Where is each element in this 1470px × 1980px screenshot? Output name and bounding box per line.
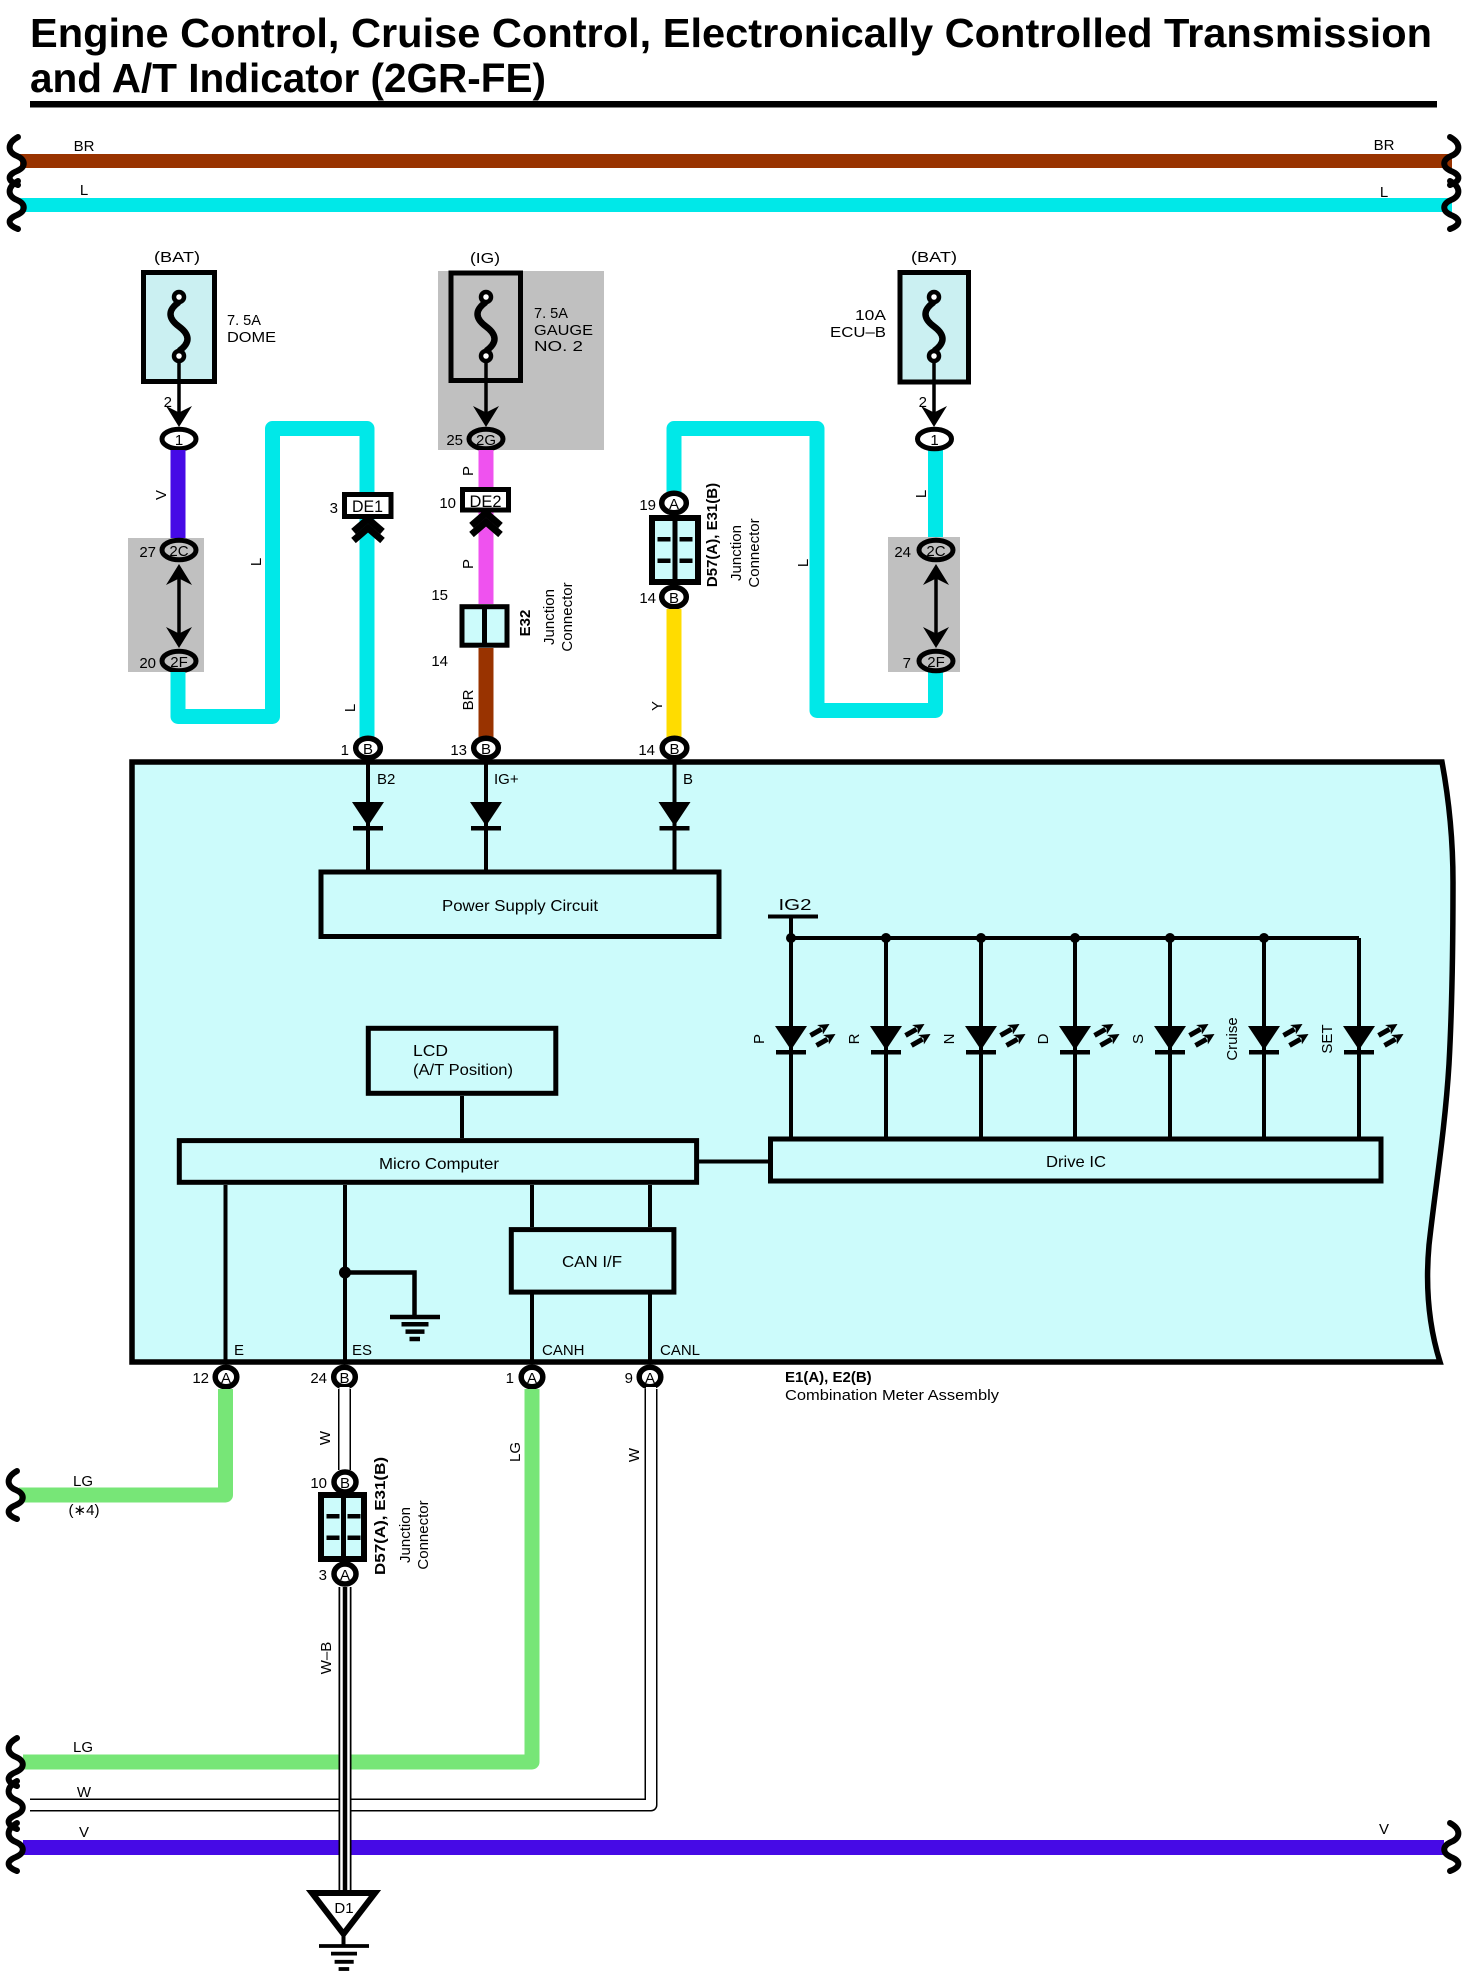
CAN I/F box	[511, 1230, 674, 1293]
svg-text:CANL: CANL	[660, 1342, 700, 1359]
pin 10 label (DE2)	[439, 495, 456, 512]
svg-text:DE1: DE1	[352, 497, 383, 516]
label N (rotated)	[941, 1034, 958, 1045]
svg-text:L: L	[248, 558, 265, 566]
fuse DOME value label	[227, 312, 276, 346]
label L (middle leg)	[248, 558, 265, 566]
svg-text:Connector: Connector	[746, 518, 763, 587]
svg-text:D57(A), E31(B): D57(A), E31(B)	[704, 483, 721, 587]
net B2 label	[377, 771, 395, 788]
net B label	[683, 771, 693, 788]
fuse DOME label (BAT)	[154, 249, 200, 266]
LED Cruise	[1248, 1024, 1309, 1055]
net ES label	[352, 1342, 372, 1359]
svg-text:B: B	[363, 741, 373, 758]
svg-text:20: 20	[139, 655, 156, 672]
svg-text:R: R	[846, 1033, 863, 1044]
pin 3 label (D57 bottom)	[319, 1567, 327, 1584]
svg-text:7. 5A: 7. 5A	[227, 312, 261, 329]
svg-text:24: 24	[310, 1370, 327, 1387]
title underline	[30, 101, 1437, 108]
svg-text:Power Supply Circuit: Power Supply Circuit	[442, 898, 599, 915]
svg-text:Junction: Junction	[397, 1507, 414, 1563]
junction dot 5	[1165, 933, 1175, 943]
svg-text:DOME: DOME	[227, 329, 276, 346]
wire IG+ to power supply	[484, 762, 488, 870]
wire L top bus	[20, 198, 1452, 212]
wire LED Cruise branch	[1262, 938, 1266, 1137]
label L (right loop left leg)	[795, 559, 812, 567]
svg-text:15: 15	[431, 587, 448, 604]
pin 3 label (DE1)	[330, 500, 338, 517]
wire LED SET branch	[1357, 938, 1361, 1137]
svg-text:LG: LG	[73, 1473, 93, 1490]
LCD box	[368, 1028, 556, 1093]
wire ES ground branch	[345, 1273, 415, 1318]
wire LED N branch	[979, 938, 983, 1137]
wire LED supply bus	[791, 936, 1359, 940]
svg-text:Micro Computer: Micro Computer	[379, 1156, 500, 1173]
label Y	[649, 701, 666, 711]
wire V bottom bus	[23, 1840, 1444, 1855]
wire BR (E32 to pin 13)	[479, 648, 494, 740]
label E32 (rotated)	[517, 610, 534, 637]
junction dot 6	[1259, 933, 1269, 943]
label LG bottom left	[73, 1739, 93, 1756]
micro computer box	[179, 1141, 696, 1183]
svg-text:3: 3	[319, 1567, 327, 1584]
LED N	[965, 1024, 1026, 1055]
wire Y (D57 to pin 14)	[667, 609, 682, 740]
svg-text:B: B	[669, 741, 679, 758]
svg-text:25: 25	[446, 432, 463, 449]
pin 24 label	[894, 544, 911, 561]
node oval 1 (ECU-B)	[918, 429, 952, 449]
wire W-B (D57 to ground D1)	[339, 1587, 352, 1892]
wire B to power supply	[673, 762, 677, 870]
svg-text:IG2: IG2	[779, 897, 812, 914]
fuse GAUGE label (IG)	[470, 250, 500, 267]
label W (pin 24 wire)	[317, 1430, 334, 1445]
label W (CANL vertical, rotated)	[626, 1447, 643, 1462]
svg-text:1: 1	[930, 432, 938, 449]
svg-text:BR: BR	[74, 138, 95, 155]
pin 14 label (E32)	[431, 653, 448, 670]
svg-text:12: 12	[192, 1370, 209, 1387]
pin 15 label (E32)	[431, 587, 448, 604]
svg-text:9: 9	[625, 1370, 633, 1387]
break symbol V right	[1444, 1823, 1458, 1871]
svg-text:ECU–B: ECU–B	[830, 324, 886, 341]
wire fuse DOME to connector	[166, 362, 192, 427]
fuse DOME box	[144, 273, 215, 382]
label Junction Connector top (rotated)	[728, 518, 763, 587]
label P upper	[460, 466, 477, 476]
svg-text:W: W	[317, 1430, 334, 1445]
net CANL label	[660, 1342, 700, 1359]
ground (internal ES)	[390, 1317, 440, 1339]
svg-text:7: 7	[903, 655, 911, 672]
svg-text:P: P	[460, 466, 477, 476]
pin 24 label	[310, 1370, 327, 1387]
pin 14 label (D57 top B)	[639, 590, 656, 607]
junction dot 1	[786, 933, 796, 943]
break symbol LG bottom	[9, 1738, 23, 1786]
svg-text:P: P	[460, 559, 477, 569]
node oval 2C left	[162, 540, 196, 560]
svg-text:2F: 2F	[170, 654, 188, 671]
svg-text:B: B	[339, 1370, 349, 1387]
connector DE1	[345, 495, 392, 517]
label L right	[1380, 184, 1388, 201]
wire D1 stub	[342, 1934, 346, 1945]
svg-text:A: A	[669, 496, 679, 513]
svg-text:LG: LG	[507, 1442, 524, 1462]
junction connector E32	[462, 607, 507, 646]
pin 7 label	[903, 655, 911, 672]
wire L (2F loop to DE1)	[178, 429, 367, 741]
wire V (DOME to 2C)	[171, 450, 186, 540]
LED R	[870, 1024, 931, 1055]
chevron DE1	[354, 519, 383, 541]
break symbol L left	[10, 181, 24, 229]
label V	[153, 490, 170, 500]
svg-text:E1(A), E2(B): E1(A), E2(B)	[785, 1369, 872, 1386]
wire fuse ECU-B to connector	[921, 362, 947, 427]
node B (D57 bottom)	[334, 1472, 356, 1492]
wire LED S branch	[1168, 938, 1172, 1137]
pin 10 label (D57 bottom)	[310, 1475, 327, 1492]
svg-text:14: 14	[431, 653, 448, 670]
net E label	[234, 1342, 244, 1359]
svg-text:and A/T Indicator (2GR-FE): and A/T Indicator (2GR-FE)	[30, 55, 546, 101]
wire CANL (CAN I/F to pin 9)	[648, 1294, 652, 1364]
label D57(A), E31(B) top (rotated)	[704, 483, 721, 587]
junction dot ES	[339, 1267, 351, 1279]
label S (rotated)	[1130, 1034, 1147, 1044]
wire LCD to micro computer	[460, 1096, 464, 1138]
svg-text:E32: E32	[517, 610, 534, 637]
diode D (B)	[659, 802, 691, 831]
label V bottom right	[1379, 1821, 1389, 1838]
svg-text:14: 14	[638, 742, 655, 759]
label P (rotated)	[751, 1034, 768, 1044]
node oval 2F right	[919, 651, 953, 671]
connector DE2	[463, 490, 509, 512]
label LG (CANH vertical, rotated)	[507, 1442, 524, 1462]
svg-text:A: A	[340, 1567, 350, 1584]
svg-text:B: B	[481, 741, 491, 758]
node oval 1 (DOME)	[162, 429, 196, 449]
fuse ECU-B value label	[830, 307, 886, 341]
junction dot 3	[976, 933, 986, 943]
label P lower	[460, 559, 477, 569]
svg-text:W–B: W–B	[318, 1642, 335, 1675]
label D57(A), E31(B) bottom (rotated)	[372, 1457, 389, 1575]
label BR left	[74, 138, 95, 155]
wire fuse GAUGE to 2G	[473, 362, 499, 427]
node oval 2C right	[919, 540, 953, 560]
svg-text:V: V	[79, 1824, 89, 1841]
label SET (rotated)	[1319, 1024, 1336, 1053]
pin 2 label (DOME)	[164, 394, 172, 411]
svg-text:Cruise: Cruise	[1224, 1017, 1241, 1060]
svg-text:2F: 2F	[927, 654, 945, 671]
pin 9 label (bottom)	[625, 1370, 633, 1387]
wire L (right loop)	[674, 429, 936, 711]
break symbol V left	[9, 1823, 23, 1871]
label BR right	[1374, 137, 1395, 154]
pin 14 label (meter B)	[638, 742, 655, 759]
svg-text:BR: BR	[460, 689, 477, 710]
junction connector D57(A) E31(B) top	[652, 518, 698, 582]
fuse GAUGE grey block	[438, 271, 604, 450]
LED SET	[1343, 1024, 1404, 1055]
title line 1	[30, 10, 1432, 56]
svg-text:NO. 2: NO. 2	[534, 338, 583, 355]
svg-text:LCD: LCD	[413, 1043, 448, 1060]
svg-text:27: 27	[139, 544, 156, 561]
svg-text:L: L	[80, 182, 88, 199]
svg-text:B2: B2	[377, 771, 395, 788]
svg-text:3: 3	[330, 500, 338, 517]
pin 1 label (bottom)	[506, 1370, 514, 1387]
svg-text:A: A	[527, 1370, 537, 1387]
node B (D57 top)	[662, 587, 687, 607]
combination meter assembly box E1(A) E2(B)	[132, 762, 1453, 1362]
svg-text:Connector: Connector	[415, 1500, 432, 1569]
pin 2 label (ECU-B)	[919, 394, 927, 411]
svg-text:BR: BR	[1374, 137, 1395, 154]
wire LED P branch	[789, 938, 793, 1137]
net CANH label	[542, 1342, 585, 1359]
label V bottom left	[79, 1824, 89, 1841]
node oval 2G	[469, 429, 503, 449]
fuse ECU-B box	[900, 273, 969, 383]
svg-text:(∗4): (∗4)	[69, 1502, 100, 1519]
power supply circuit box	[321, 872, 719, 937]
wire L (ECU-B to 2C right)	[928, 449, 943, 545]
svg-text:2C: 2C	[169, 543, 188, 560]
wire LG (CANH pin 1 to left)	[23, 1389, 532, 1762]
label W bottom left	[77, 1784, 92, 1801]
svg-text:7. 5A: 7. 5A	[534, 305, 568, 322]
pin 13 label (meter B)	[450, 742, 467, 759]
break symbol L right	[1444, 181, 1458, 229]
label Combination Meter Assembly	[785, 1387, 1000, 1404]
label E32 Junction Connector (rotated)	[541, 582, 576, 651]
svg-text:DE2: DE2	[470, 492, 502, 511]
svg-text:(BAT): (BAT)	[154, 249, 200, 266]
label E1(A), E2(B)	[785, 1369, 872, 1386]
node A pin9 (meter)	[639, 1367, 661, 1387]
svg-text:B: B	[340, 1475, 350, 1492]
node A (D57 bottom)	[334, 1564, 356, 1584]
wire W (CANL pin 9 to left)	[27, 1387, 651, 1805]
node IG2	[768, 897, 818, 938]
fuse GAUGE box	[451, 273, 521, 381]
connector block 2C/2F right (grey)	[888, 537, 960, 672]
label Cruise (rotated)	[1224, 1017, 1241, 1060]
svg-text:A: A	[645, 1370, 655, 1387]
node B pin14 (meter)	[662, 738, 687, 758]
wire LG (pin 12 to left)	[19, 1389, 226, 1495]
svg-text:1: 1	[341, 742, 349, 759]
svg-text:(BAT): (BAT)	[911, 249, 957, 266]
pin 1 label (meter B)	[341, 742, 349, 759]
title line 2	[30, 55, 546, 101]
svg-text:IG+: IG+	[494, 771, 519, 788]
node B pin13 (meter)	[474, 738, 499, 758]
svg-text:LG: LG	[73, 1739, 93, 1756]
LED P	[775, 1024, 836, 1055]
chevron DE2	[472, 513, 501, 535]
svg-text:S: S	[1130, 1034, 1147, 1044]
svg-text:L: L	[795, 559, 812, 567]
svg-text:L: L	[1380, 184, 1388, 201]
svg-text:P: P	[751, 1034, 768, 1044]
wire micro computer to CAN I/F (CANH side)	[530, 1185, 534, 1227]
pin 27 label	[139, 544, 156, 561]
node B pin24 (meter)	[334, 1367, 356, 1387]
wire ES (micro computer to pin 24)	[343, 1185, 347, 1364]
label W-B (rotated)	[318, 1642, 335, 1675]
break symbol W bottom	[9, 1781, 23, 1829]
wire micro computer to drive IC	[699, 1160, 768, 1164]
break symbol BR right	[1444, 137, 1458, 185]
svg-text:Junction: Junction	[541, 589, 558, 645]
svg-text:1: 1	[506, 1370, 514, 1387]
pin 12 label	[192, 1370, 209, 1387]
svg-text:19: 19	[639, 497, 656, 514]
wire B2 to power supply	[366, 762, 370, 870]
LED S	[1154, 1024, 1215, 1055]
junction arrow 2C-2F right	[923, 564, 949, 648]
wire micro computer to CAN I/F (CANL side)	[648, 1185, 652, 1227]
svg-text:A: A	[221, 1370, 231, 1387]
svg-text:CANH: CANH	[542, 1342, 585, 1359]
label LG (*4)	[69, 1473, 100, 1519]
node oval 2F left	[162, 651, 196, 671]
label Junction Connector bottom (rotated)	[397, 1500, 432, 1569]
svg-text:GAUGE: GAUGE	[534, 322, 593, 339]
svg-text:Y: Y	[649, 701, 666, 711]
svg-text:D: D	[1035, 1033, 1052, 1044]
pin 20 label	[139, 655, 156, 672]
svg-text:10: 10	[439, 495, 456, 512]
fuse GAUGE value label	[534, 305, 593, 355]
ground symbol D1	[319, 1946, 369, 1969]
svg-text:V: V	[153, 490, 170, 500]
net IG+ label	[494, 771, 519, 788]
svg-text:E: E	[234, 1342, 244, 1359]
svg-text:ES: ES	[352, 1342, 372, 1359]
svg-text:D1: D1	[334, 1900, 353, 1917]
svg-text:W: W	[77, 1784, 92, 1801]
label L left	[80, 182, 88, 199]
svg-text:B: B	[683, 771, 693, 788]
svg-text:10: 10	[310, 1475, 327, 1492]
svg-text:2C: 2C	[926, 543, 945, 560]
node A (D57 top)	[662, 493, 687, 513]
node A pin12 (meter)	[215, 1367, 237, 1387]
wire BR top bus	[20, 154, 1452, 168]
wire CANH (CAN I/F to pin 1)	[530, 1294, 534, 1364]
diode D (B2)	[352, 802, 384, 831]
label R (rotated)	[846, 1033, 863, 1044]
pin 25 label	[446, 432, 463, 449]
wire E (micro computer to pin 12)	[224, 1185, 228, 1364]
svg-text:Connector: Connector	[559, 582, 576, 651]
svg-text:14: 14	[639, 590, 656, 607]
svg-text:W: W	[626, 1447, 643, 1462]
junction dot 4	[1070, 933, 1080, 943]
svg-text:CAN I/F: CAN I/F	[562, 1254, 622, 1271]
node A pin1 (meter)	[521, 1367, 543, 1387]
fuse ECU-B label (BAT)	[911, 249, 957, 266]
break symbol LG (*4)	[9, 1471, 23, 1519]
svg-text:13: 13	[450, 742, 467, 759]
svg-text:B: B	[669, 590, 679, 607]
svg-text:10A: 10A	[855, 307, 886, 324]
svg-text:Combination Meter Assembly: Combination Meter Assembly	[785, 1387, 1000, 1404]
node B pin1 (meter)	[356, 738, 381, 758]
svg-text:Drive IC: Drive IC	[1046, 1154, 1106, 1171]
svg-text:(A/T Position): (A/T Position)	[413, 1062, 513, 1079]
svg-text:2G: 2G	[476, 432, 496, 449]
diode D (IG+)	[470, 802, 502, 831]
svg-text:SET: SET	[1319, 1024, 1336, 1053]
junction dot 2	[881, 933, 891, 943]
svg-text:D57(A), E31(B): D57(A), E31(B)	[372, 1457, 389, 1575]
svg-text:L: L	[342, 704, 359, 712]
wire LED R branch	[884, 938, 888, 1137]
pin 19 label	[639, 497, 656, 514]
LED D	[1059, 1024, 1120, 1055]
junction arrow 2C-2F left	[166, 564, 192, 648]
svg-text:1: 1	[175, 432, 183, 449]
ground D1 triangle	[312, 1893, 375, 1934]
svg-text:24: 24	[894, 544, 911, 561]
drive IC box	[771, 1139, 1382, 1181]
wire LED D branch	[1073, 938, 1077, 1137]
label BR wire	[460, 689, 477, 710]
svg-text:Engine Control, Cruise Control: Engine Control, Cruise Control, Electron…	[30, 10, 1432, 56]
svg-text:N: N	[941, 1034, 958, 1045]
break symbol BR left	[10, 137, 24, 185]
wire W (pin 24 to D57)	[338, 1387, 351, 1473]
svg-text:V: V	[1379, 1821, 1389, 1838]
label L (ECU-B leg)	[913, 490, 930, 498]
wire P (2G to E32)	[479, 450, 494, 604]
svg-text:Junction: Junction	[728, 525, 745, 581]
svg-text:(IG): (IG)	[470, 250, 500, 267]
junction connector D57(A) E31(B) bottom	[321, 1495, 364, 1559]
svg-text:L: L	[913, 490, 930, 498]
label D (rotated)	[1035, 1033, 1052, 1044]
label L (right leg)	[342, 704, 359, 712]
connector block 2C/2F left (grey)	[128, 538, 204, 672]
